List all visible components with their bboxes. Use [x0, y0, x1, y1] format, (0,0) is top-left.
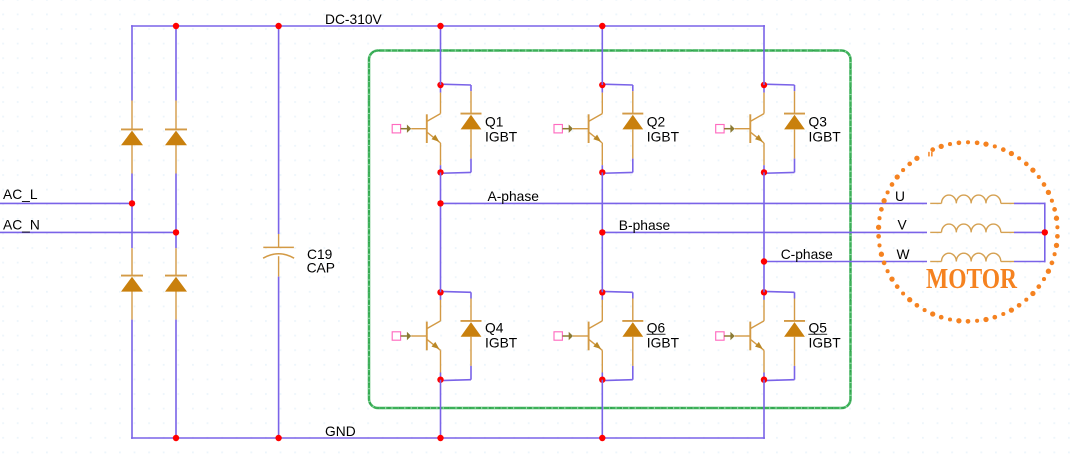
- gate drive arrow of Q4: [401, 335, 408, 337]
- freewheel diode of Q1 body: [461, 115, 482, 130]
- svg-text:V: V: [898, 218, 908, 233]
- transistor Q4 emitter pin: [427, 340, 440, 351]
- transistor Q6 emitter wire to leg: [601, 373, 603, 380]
- junction node C-phase: [761, 258, 767, 264]
- transistor Q4 emitter wire to leg: [440, 373, 442, 380]
- junction node cap on GND rail: [275, 435, 281, 441]
- freewheel diode of Q3 upper pin: [794, 91, 796, 113]
- svg-text:Q5: Q5: [809, 320, 828, 335]
- node Q6 collector junction: [599, 289, 605, 295]
- wire winding W to star point: [1014, 261, 1045, 263]
- transistor Q5 emitter pin: [751, 340, 764, 351]
- gate port square of Q6: [554, 332, 562, 340]
- wire AC_N input: [0, 231, 176, 233]
- diode D2 body: [165, 131, 187, 146]
- wire rectifier leg 2 lower (D4 to GND rail): [175, 320, 177, 438]
- node Q3 emitter junction: [761, 169, 767, 175]
- freewheel diode of Q6 lower pin: [632, 337, 634, 366]
- diode D4 body: [165, 277, 187, 292]
- gate pin wire of Q5: [735, 335, 751, 337]
- node Q4 emitter junction: [437, 377, 443, 383]
- transistor Q3 base bar: [749, 114, 751, 143]
- wire rectifier leg 1 (AC_L node to D3): [131, 203, 133, 248]
- wire leg 1 phase node to low-side collector: [440, 203, 442, 292]
- diode D1 cathode bar: [121, 128, 143, 130]
- inductor winding V of motor: [930, 231, 941, 233]
- svg-text:Q4: Q4: [485, 320, 504, 335]
- diode branch bottom wire of Q1: [470, 159, 472, 173]
- gate pin wire of Q4: [411, 335, 427, 337]
- diode D1 body: [121, 131, 143, 146]
- node Q4 collector junction: [437, 289, 443, 295]
- diode D4 cathode bar: [165, 275, 187, 277]
- svg-text:Q6: Q6: [647, 320, 666, 335]
- transistor Q2 emitter wire to leg: [601, 165, 603, 172]
- junction node cap on DC rail: [275, 23, 281, 29]
- transistor Q2 base bar: [588, 114, 590, 143]
- transistor Q3 emitter wire to leg: [763, 165, 765, 172]
- junction node A-phase: [437, 200, 443, 206]
- transistor Q3 emitter pin: [751, 132, 764, 143]
- inductor winding U of motor: [930, 202, 941, 204]
- wire leg 2 phase node to low-side collector: [601, 232, 603, 292]
- capacitor C19 bottom pin: [278, 256, 280, 276]
- diode D4 pins: [175, 248, 177, 276]
- freewheel diode of Q5 cathode bar: [784, 320, 805, 322]
- freewheel diode of Q2 lower pin: [632, 129, 634, 158]
- transistor Q5 collector wire from leg: [763, 292, 765, 300]
- svg-text:MOTOR: MOTOR: [926, 264, 1017, 295]
- transistor Q1 emitter arrow: [432, 135, 440, 142]
- transistor Q1 collector wire from leg: [440, 85, 442, 93]
- svg-text:B-phase: B-phase: [619, 218, 671, 233]
- gate pin wire of Q1: [411, 128, 427, 130]
- wire rectifier leg 1 lower (D3 to GND rail): [131, 320, 133, 439]
- inductor winding W of motor: [930, 261, 941, 263]
- junction node AC_L: [129, 200, 135, 206]
- svg-text:IGBT: IGBT: [485, 335, 518, 350]
- gate port square of Q4: [392, 332, 400, 340]
- freewheel diode of Q4 cathode bar: [461, 320, 482, 322]
- wire leg 3 low-side emitter to GND rail: [763, 380, 765, 439]
- wire leg 3 phase node to low-side collector: [763, 262, 765, 293]
- wire motor star point bus: [1044, 203, 1046, 263]
- node Q3 collector junction: [761, 82, 767, 88]
- svg-text:AC_L: AC_L: [3, 187, 38, 202]
- diode branch bottom wire of Q4: [470, 366, 472, 380]
- junction node leg2 on DC rail: [173, 23, 179, 29]
- node Q5 collector junction: [761, 289, 767, 295]
- wire C-phase output: [764, 261, 927, 263]
- diode branch bottom wire of Q3: [794, 159, 796, 173]
- gate drive arrow of Q2: [562, 128, 569, 130]
- transistor Q4 collector pin: [440, 300, 442, 321]
- transistor Q4 emitter arrow: [432, 342, 440, 349]
- diode D1 anode-to-cathode pins: [131, 101, 133, 131]
- capacitor C19 top plate: [263, 246, 294, 248]
- wire DC-310V top rail: [131, 25, 765, 27]
- junction node B-phase: [599, 229, 605, 235]
- junction node leg 1 on DC rail: [437, 23, 443, 29]
- node Q6 emitter junction: [599, 377, 605, 383]
- transistor Q2 emitter arrow: [593, 135, 601, 142]
- freewheel diode of Q5 upper pin: [794, 299, 796, 321]
- freewheel diode of Q6 cathode bar: [622, 320, 643, 322]
- svg-text:DC-310V: DC-310V: [325, 12, 383, 27]
- diode branch top wire of Q4: [441, 290, 472, 293]
- wire leg 3 high-side emitter to phase node: [763, 172, 765, 261]
- gate port square of Q3: [716, 125, 724, 133]
- diode D3 body: [121, 277, 143, 292]
- freewheel diode of Q2 body: [622, 115, 643, 130]
- transistor Q1 emitter wire to leg: [440, 165, 442, 172]
- freewheel diode of Q1 lower pin: [470, 129, 472, 158]
- svg-text:A-phase: A-phase: [488, 189, 540, 204]
- capacitor C19 top pin: [278, 234, 280, 247]
- transistor Q3 emitter arrow: [755, 135, 763, 142]
- wire leg 1 low-side emitter to GND rail: [440, 380, 442, 439]
- svg-text:Q1: Q1: [485, 114, 503, 129]
- svg-text:IGBT: IGBT: [485, 130, 518, 145]
- junction node leg2 on GND rail: [173, 435, 179, 441]
- gate drive arrow of Q5: [724, 335, 731, 337]
- freewheel diode of Q3 lower pin: [794, 129, 796, 158]
- transistor Q6 emitter arrow: [593, 342, 601, 349]
- wire A-phase output: [441, 202, 928, 204]
- svg-text:W: W: [897, 247, 910, 262]
- node Q5 emitter junction: [761, 377, 767, 383]
- freewheel diode of Q2 cathode bar: [622, 113, 643, 115]
- freewheel diode of Q3 body: [784, 115, 805, 130]
- transistor Q4 collector wire from leg: [440, 292, 442, 300]
- freewheel diode of Q5 body: [784, 322, 805, 337]
- svg-text:IGBT: IGBT: [647, 130, 680, 145]
- wire rectifier leg 1 middle (D1 to AC_L node): [131, 174, 133, 204]
- diode D2 pins: [175, 101, 177, 131]
- transistor Q2 collector wire from leg: [601, 85, 603, 93]
- transistor Q5 base bar: [749, 322, 751, 351]
- wire B-phase output: [602, 231, 927, 233]
- transistor Q6 emitter pin: [589, 340, 602, 351]
- wire leg 3 DC rail to high-side IGBT: [763, 25, 765, 85]
- transistor Q4 base bar: [426, 322, 428, 351]
- transistor Q6 collector pin: [601, 300, 603, 321]
- wire rectifier leg 2 (AC_N node to D4): [175, 232, 177, 248]
- svg-text:U: U: [895, 189, 905, 204]
- wire winding U to star point: [1014, 202, 1045, 204]
- junction node motor star point: [1042, 229, 1048, 235]
- freewheel diode of Q1 upper pin: [470, 91, 472, 113]
- svg-text:IGBT: IGBT: [647, 335, 680, 350]
- diode D3 pins: [131, 248, 133, 276]
- diode branch bottom wire of Q2: [632, 159, 634, 173]
- junction node AC_N: [173, 229, 179, 235]
- wire rectifier leg 2 middle (D2 to AC_N node): [175, 174, 177, 233]
- wire leg 2 DC rail to high-side IGBT: [601, 25, 603, 85]
- wire winding V to star point: [1014, 231, 1045, 233]
- svg-text:Q3: Q3: [809, 114, 828, 129]
- svg-text:C-phase: C-phase: [781, 247, 833, 262]
- wire leg 1 high-side emitter to phase node: [440, 172, 442, 203]
- freewheel diode of Q6 body: [622, 322, 643, 337]
- wire rectifier leg 2 upper (DC rail to D2): [175, 26, 177, 101]
- svg-text:AC_N: AC_N: [3, 217, 40, 232]
- diode branch top wire of Q6: [602, 290, 633, 293]
- freewheel diode of Q6 upper pin: [632, 299, 634, 321]
- svg-text:Q2: Q2: [647, 114, 665, 129]
- gate pin wire of Q6: [573, 335, 589, 337]
- freewheel diode of Q1 cathode bar: [461, 113, 482, 115]
- wire leg 2 high-side emitter to phase node: [601, 172, 603, 232]
- transistor Q1 emitter pin: [427, 132, 440, 143]
- transistor Q6 collector wire from leg: [601, 292, 603, 300]
- junction node leg 2 on GND rail: [599, 435, 605, 441]
- inverter module outline (green box): [369, 51, 851, 409]
- diode branch top wire of Q5: [764, 290, 795, 293]
- junction node leg 1 on GND rail: [437, 435, 443, 441]
- wire AC_L input: [0, 202, 132, 204]
- capacitor C19 curved plate: [263, 254, 294, 259]
- node Q2 emitter junction: [599, 169, 605, 175]
- diode branch bottom wire of Q6: [632, 366, 634, 380]
- freewheel diode of Q5 lower pin: [794, 337, 796, 366]
- wire rectifier leg 1 upper (DC rail to D1): [131, 25, 133, 100]
- svg-text:IGBT: IGBT: [809, 335, 842, 350]
- gate port square of Q1: [392, 125, 400, 133]
- node Q2 collector junction: [599, 82, 605, 88]
- transistor Q6 base bar: [588, 322, 590, 351]
- freewheel diode of Q2 upper pin: [632, 91, 634, 113]
- transistor Q2 collector pin: [601, 93, 603, 114]
- transistor Q3 collector pin: [763, 93, 765, 114]
- motor M1 dotted circle quote-like tick: [928, 152, 932, 157]
- wire cap leg upper (DC rail to C19): [278, 26, 280, 234]
- diode branch top wire of Q2: [602, 83, 633, 86]
- diode branch bottom wire of Q5: [794, 366, 796, 380]
- transistor Q1 collector pin: [440, 93, 442, 114]
- freewheel diode of Q3 cathode bar: [784, 113, 805, 115]
- motor M1 dotted circle outline: [876, 140, 1060, 323]
- diode D3 cathode bar: [121, 275, 143, 277]
- gate port square of Q2: [554, 125, 562, 133]
- gate drive arrow of Q6: [562, 335, 569, 337]
- transistor Q3 collector wire from leg: [763, 85, 765, 93]
- gate pin wire of Q2: [573, 128, 589, 130]
- svg-text:IGBT: IGBT: [809, 130, 842, 145]
- transistor Q5 emitter wire to leg: [763, 373, 765, 380]
- wire leg 1 DC rail to high-side IGBT: [440, 25, 442, 85]
- wire GND bottom rail: [131, 437, 765, 439]
- junction node leg 2 on DC rail: [599, 23, 605, 29]
- transistor Q2 emitter pin: [589, 132, 602, 143]
- svg-text:GND: GND: [325, 424, 356, 439]
- wire leg 2 low-side emitter to GND rail: [601, 380, 603, 439]
- gate drive arrow of Q1: [401, 128, 408, 130]
- freewheel diode of Q4 lower pin: [470, 337, 472, 366]
- freewheel diode of Q4 body: [461, 322, 482, 337]
- transistor Q1 base bar: [426, 114, 428, 143]
- diode D2 cathode bar: [165, 128, 187, 130]
- gate pin wire of Q3: [735, 128, 751, 130]
- wire cap leg lower (C19 to GND rail): [278, 277, 280, 438]
- node Q1 collector junction: [437, 82, 443, 88]
- gate port square of Q5: [716, 332, 724, 340]
- transistor Q5 emitter arrow: [755, 342, 763, 349]
- diode branch top wire of Q3: [764, 83, 795, 86]
- transistor Q5 collector pin: [763, 300, 765, 321]
- node Q1 emitter junction: [437, 169, 443, 175]
- freewheel diode of Q4 upper pin: [470, 299, 472, 321]
- svg-text:CAP: CAP: [307, 260, 335, 275]
- diode branch top wire of Q1: [441, 83, 472, 86]
- gate drive arrow of Q3: [724, 128, 731, 130]
